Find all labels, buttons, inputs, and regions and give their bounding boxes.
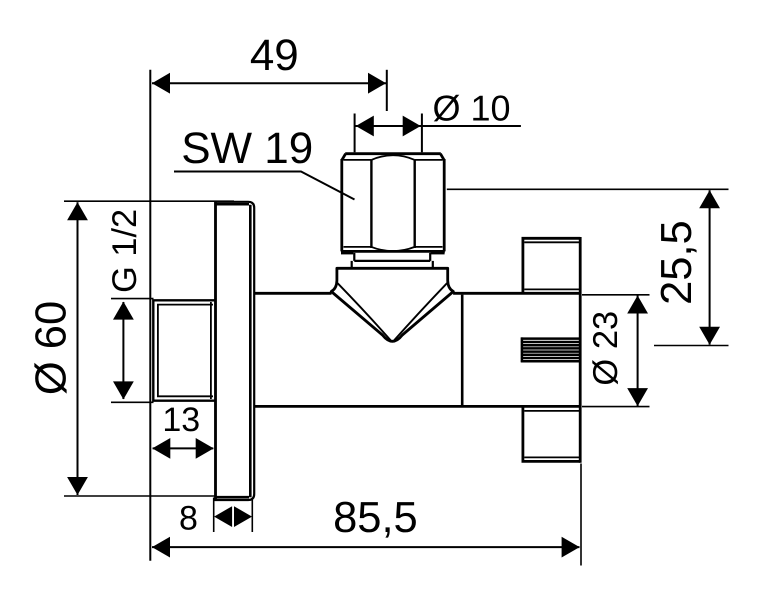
dimension 49 arrow right	[368, 73, 386, 94]
compression nut bottom edge feet	[341, 251, 353, 254]
dimension D10 arrow right	[403, 116, 421, 137]
inlet thread G1/2 nipple inner	[158, 302, 213, 399]
dimension 8 arrow left	[214, 506, 232, 527]
wall plate front face edges	[216, 204, 251, 497]
dimension D10 extension lines	[355, 114, 422, 153]
valve bonnet cone outline	[331, 268, 453, 341]
inlet thread G1/2 nipple outer	[153, 300, 215, 400]
dimension 49 arrow left	[152, 73, 170, 94]
valve body top line	[255, 292, 580, 295]
valve body bottom line	[255, 405, 580, 408]
svg-text:SW 19: SW 19	[181, 124, 313, 173]
washer ring lower below nut	[352, 261, 433, 268]
dimension D23 extension lines	[582, 295, 650, 407]
wall plate rosette outer silhouette	[216, 202, 255, 500]
svg-text:G 1/2: G 1/2	[106, 209, 144, 293]
handle knurl grip ribs	[521, 337, 579, 362]
dimension 85,5 arrow right	[562, 537, 580, 558]
svg-text:13: 13	[162, 401, 200, 439]
dimension D23 arrow up	[627, 296, 648, 314]
washer ring upper below nut	[354, 253, 430, 261]
dimension 49 extension line left (long vertical)	[149, 70, 151, 561]
compression nut top chamfer lines and arc	[344, 155, 443, 160]
dimension D60 extension lines	[64, 201, 234, 496]
dimension 13 arrow left	[152, 438, 170, 459]
dimension D10 line with leader	[356, 125, 521, 127]
dimension 13 line	[153, 447, 214, 449]
valve bonnet cone inner edge left	[338, 283, 391, 340]
valve bonnet cone inner edge right	[394, 283, 447, 340]
dimension 85,5 line	[152, 546, 580, 548]
svg-text:49: 49	[250, 31, 299, 80]
dimension 25,5 arrow down	[699, 327, 720, 345]
dimension D23 arrow down	[627, 388, 648, 406]
label SW 19 leader line	[174, 172, 355, 200]
dimension 25,5 line	[709, 190, 711, 344]
dimension D60 arrow down	[67, 477, 88, 495]
svg-text:Ø 23: Ø 23	[587, 311, 625, 386]
dimension D23 line	[637, 296, 639, 407]
dimension 13 arrow right	[196, 438, 214, 459]
compression nut SW19 hex body	[341, 154, 445, 252]
dimension 8 arrow right	[234, 506, 252, 527]
dimension 49 tick right (top port axis)	[386, 70, 388, 111]
dimension D10 arrow left	[356, 116, 374, 137]
handle knob top flange inner lines	[524, 242, 579, 289]
svg-text:85,5: 85,5	[333, 494, 418, 542]
dimension G1/2 arrow up	[113, 302, 134, 320]
svg-text:Ø 60: Ø 60	[27, 301, 75, 395]
dimension 25,5 extension lines	[447, 189, 729, 345]
dimension 49 line	[152, 82, 386, 84]
dimension G1/2 line	[122, 302, 124, 399]
compression nut facet edges	[371, 160, 414, 248]
handle knob bottom flange	[523, 407, 580, 462]
wall plate left wall edge	[214, 201, 217, 501]
compression nut bottom chamfer lines and arc	[344, 247, 443, 251]
dimension G1/2 arrow down	[113, 381, 134, 399]
dimension D60 arrow up	[67, 202, 88, 220]
handle knob top flange	[523, 238, 580, 293]
dimension 8 extension lines	[214, 498, 253, 533]
handle knob right edge	[579, 237, 582, 463]
svg-text:8: 8	[179, 499, 198, 537]
handle knob bottom flange inner lines	[524, 411, 579, 458]
dimension 85,5 extension line right	[580, 464, 582, 566]
dimension D60 line	[77, 202, 79, 495]
svg-text:Ø 10: Ø 10	[433, 87, 511, 128]
valve body joint vertical	[461, 295, 464, 406]
dimension 25,5 arrow up	[699, 190, 720, 208]
svg-text:25,5: 25,5	[653, 220, 701, 305]
dimension 85,5 arrow left	[152, 537, 170, 558]
dimension G1/2 extension lines	[111, 299, 154, 403]
